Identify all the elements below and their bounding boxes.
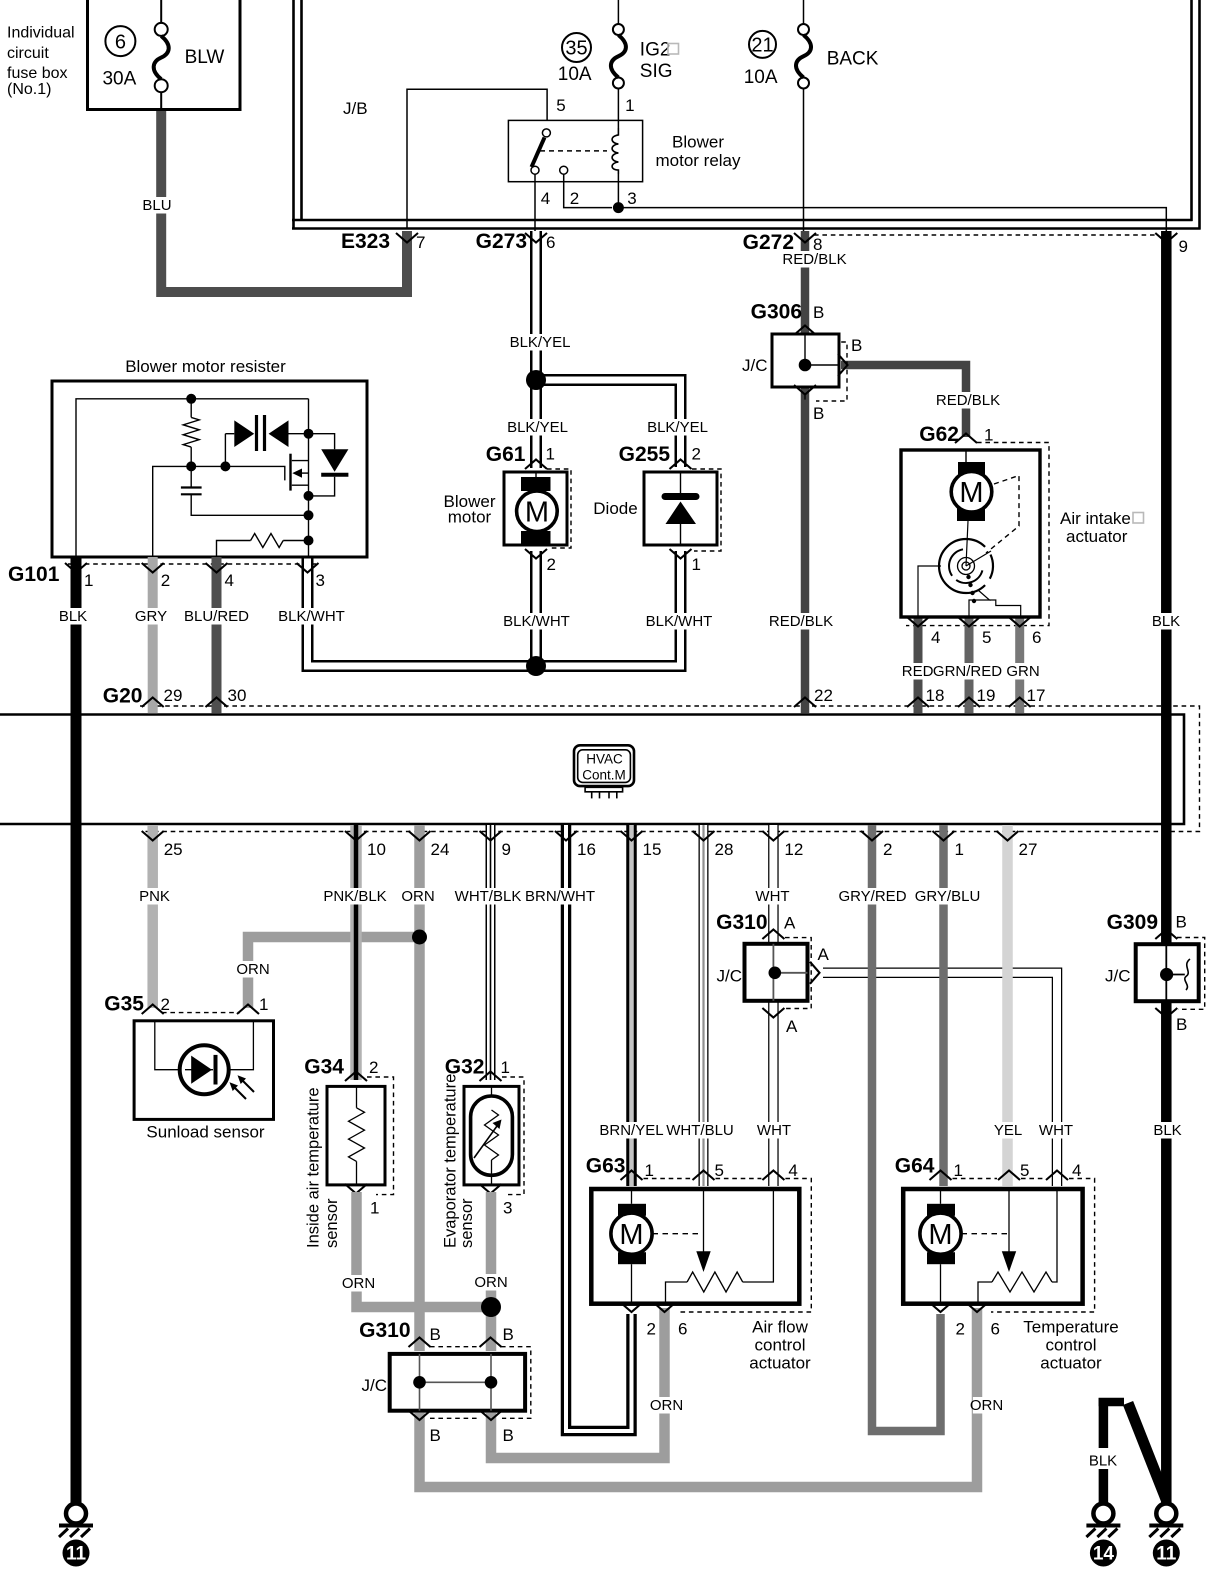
ground 11 right <box>1149 1504 1183 1567</box>
wire BLU from fuse box to E323 <box>161 111 407 292</box>
connector G35 pins 2,1 <box>104 993 268 1016</box>
junction BLK/YEL <box>526 370 546 390</box>
wire GRN/RED G62 pin 5 <box>965 617 974 713</box>
wire GRY resistor pin2 to G20 pin29 <box>148 557 158 713</box>
svg-text:sensor: sensor <box>323 1198 341 1248</box>
junction relay pin3 <box>613 202 624 213</box>
svg-text:actuator: actuator <box>1040 1354 1102 1373</box>
wire colour labels row2 <box>139 888 980 905</box>
svg-text:2: 2 <box>570 189 579 208</box>
svg-text:HVAC: HVAC <box>586 752 623 767</box>
svg-text:11: 11 <box>1156 1544 1177 1565</box>
label G64 <box>1023 1318 1118 1373</box>
wire ORN G32 pin3 to G310 <box>486 1192 497 1351</box>
svg-text:Cont.M: Cont.M <box>582 768 626 783</box>
wire WHT pin12 to G310 to G63 pin4 <box>768 825 779 946</box>
svg-text:GRN/RED: GRN/RED <box>933 663 1002 680</box>
internal capacitor C1 <box>190 466 192 487</box>
connector G101 dashed line <box>68 563 318 565</box>
HVAC control module outline <box>0 706 1200 832</box>
label G63 <box>749 1318 811 1373</box>
svg-text:M: M <box>928 1219 952 1251</box>
Air flow|control|actuator G63 <box>591 1189 799 1304</box>
svg-text:6: 6 <box>1032 628 1041 647</box>
connector G273 pin 6 <box>476 230 556 253</box>
svg-text:BLK/WHT: BLK/WHT <box>646 613 713 630</box>
svg-text:G35: G35 <box>104 993 144 1016</box>
svg-text:BLW: BLW <box>185 47 225 68</box>
gate rail <box>153 466 285 557</box>
sunload sensor G35 <box>134 1021 273 1142</box>
svg-text:G34: G34 <box>304 1056 344 1079</box>
wire BLK branch to ground 14 <box>1085 1398 1166 1504</box>
svg-text:1: 1 <box>259 995 268 1014</box>
svg-text:PNK/BLK: PNK/BLK <box>323 888 386 905</box>
connector HVAC row pins 25,10,24,9,16,15,28,12,2,1,27 <box>142 831 1038 859</box>
ground 11 left <box>59 1504 93 1567</box>
svg-text:27: 27 <box>1019 840 1038 859</box>
connector G62 pins 4,5,6 <box>902 617 1042 680</box>
connector G272 pin 8 <box>743 231 1157 254</box>
svg-text:1: 1 <box>692 555 701 574</box>
svg-text:J/C: J/C <box>362 1376 388 1395</box>
svg-text:(No.1): (No.1) <box>7 81 51 98</box>
svg-text:Temperature: Temperature <box>1023 1318 1118 1337</box>
internal MOSFET Q1 <box>289 454 291 491</box>
connector G64 pins 1,5,4 <box>895 1155 1095 1313</box>
svg-text:B: B <box>503 1325 514 1344</box>
svg-text:5: 5 <box>982 628 991 647</box>
svg-text:18: 18 <box>926 686 945 705</box>
svg-text:1: 1 <box>955 840 964 859</box>
svg-text:6: 6 <box>546 233 555 252</box>
wire WHT branch G310 to G64 pin4 <box>823 973 1057 1186</box>
svg-text:G255: G255 <box>619 443 671 466</box>
wire BLK/WHT blower motor and diode to resistor pin 3 <box>530 551 542 666</box>
svg-text:BLU: BLU <box>142 197 171 214</box>
svg-text:7: 7 <box>416 233 425 252</box>
svg-text:J/C: J/C <box>742 356 768 375</box>
svg-text:M: M <box>959 477 983 509</box>
HVAC Cont.M icon <box>574 745 634 798</box>
wire relay pin5 to E323 <box>407 89 547 228</box>
svg-text:GRN: GRN <box>1006 663 1039 680</box>
svg-text:6: 6 <box>991 1320 1000 1339</box>
connector G61 pins 1,2 <box>486 443 571 574</box>
connector G20 row pins <box>103 685 1046 708</box>
svg-text:A: A <box>786 1017 798 1036</box>
svg-text:G306: G306 <box>751 301 802 324</box>
svg-text:J/C: J/C <box>1105 967 1131 986</box>
individual circuit fuse box No.1 <box>7 0 242 111</box>
blower motor G61 <box>444 472 567 545</box>
connector G63 pins 1,5,4 <box>586 1155 812 1313</box>
wire WHT/BLK pin9 to G32 pin1 <box>486 825 496 1080</box>
svg-text:WHT: WHT <box>757 1122 791 1139</box>
ground 14 <box>1086 1504 1120 1567</box>
svg-text:ORN: ORN <box>401 888 434 905</box>
svg-text:J/B: J/B <box>343 99 368 118</box>
actuator drum <box>958 558 975 575</box>
svg-text:8: 8 <box>813 235 822 254</box>
svg-text:1: 1 <box>954 1161 963 1180</box>
svg-text:25: 25 <box>164 840 183 859</box>
svg-text:G101: G101 <box>8 563 60 586</box>
wire RED/BLK G272 to G306 to G20 pin 22 <box>801 231 810 336</box>
wire ORN pin24 to G310 <box>414 825 425 1351</box>
svg-text:G61: G61 <box>486 443 526 466</box>
svg-text:RED: RED <box>902 663 934 680</box>
svg-text:10A: 10A <box>744 67 778 88</box>
wire GRY/RED pin2 to G64 pin2 <box>872 825 941 1431</box>
junction connector G310 (J/C) pin A <box>716 911 829 1036</box>
wire RED G62 pin 4 <box>914 617 923 713</box>
svg-text:M: M <box>619 1219 643 1251</box>
svg-text:35: 35 <box>565 38 587 60</box>
svg-text:B: B <box>813 303 824 322</box>
connector G34 pin 2 <box>304 1056 393 1195</box>
svg-text:BLK/YEL: BLK/YEL <box>510 334 571 351</box>
wire BLU/RED resistor pin4 to G20 pin30 <box>212 557 222 713</box>
svg-text:Blower: Blower <box>672 133 724 152</box>
svg-text:GRY/BLU: GRY/BLU <box>915 888 981 905</box>
wire fuse21 to G272 <box>803 0 805 24</box>
svg-text:Individual: Individual <box>7 25 75 42</box>
svg-text:G64: G64 <box>895 1155 935 1178</box>
relay coil <box>612 128 618 174</box>
wire GRY/BLU pin1 to G64 pin1 <box>939 825 948 1186</box>
svg-text:G62: G62 <box>919 423 959 446</box>
internal resistor R2 <box>251 534 284 548</box>
svg-text:G309: G309 <box>1107 911 1158 934</box>
air intake actuator G62 <box>901 450 1040 617</box>
junction block J/B box <box>292 0 1201 230</box>
wire fuse35 to relay pin1 <box>617 0 619 24</box>
svg-text:21: 21 <box>751 34 773 56</box>
svg-text:IG2: IG2 <box>640 39 671 60</box>
svg-text:3: 3 <box>503 1199 512 1218</box>
junction connector G310 (J/C) pins B,B <box>359 1319 531 1445</box>
internal TVS diode pair <box>224 434 226 467</box>
svg-text:ORN: ORN <box>650 1397 683 1414</box>
svg-text:G20: G20 <box>103 685 143 708</box>
svg-text:4: 4 <box>541 189 550 208</box>
svg-text:Inside air temperature: Inside air temperature <box>305 1088 323 1249</box>
wire RED/BLK G306 branch to G62 <box>841 365 966 437</box>
svg-text:WHT/BLK: WHT/BLK <box>455 888 522 905</box>
wire ORN G310 to G64 pin6 <box>420 1308 978 1487</box>
svg-text:Blower motor resister: Blower motor resister <box>125 357 286 376</box>
wire relay pin4 to G273 <box>534 174 536 235</box>
svg-text:5: 5 <box>556 96 565 115</box>
svg-text:5: 5 <box>715 1161 724 1180</box>
svg-text:BLK: BLK <box>1153 1122 1181 1139</box>
svg-text:ORN: ORN <box>474 1274 507 1291</box>
svg-text:fuse box: fuse box <box>7 65 67 82</box>
svg-text:11: 11 <box>66 1544 87 1565</box>
svg-text:J/C: J/C <box>717 967 743 986</box>
fuse 35 10A IG2 SIG <box>558 24 679 89</box>
svg-text:30A: 30A <box>102 69 136 90</box>
svg-text:BLK: BLK <box>1152 613 1180 630</box>
junction ORN <box>412 930 427 945</box>
svg-text:B: B <box>1176 1015 1187 1034</box>
svg-text:G272: G272 <box>743 231 794 254</box>
wire relay pin2 <box>564 174 612 207</box>
svg-text:16: 16 <box>577 840 596 859</box>
internal resistor R1 <box>183 417 199 447</box>
svg-text:motor: motor <box>448 508 492 527</box>
svg-text:Air flow: Air flow <box>752 1318 808 1337</box>
svg-text:G310: G310 <box>359 1319 410 1342</box>
svg-text:4: 4 <box>788 1161 797 1180</box>
svg-text:WHT: WHT <box>1039 1122 1073 1139</box>
wire BLK resistor pin1 to ground 11 <box>71 557 82 1504</box>
connector G272 pin 9 <box>1155 233 1188 256</box>
svg-text:ORN: ORN <box>970 1397 1003 1414</box>
svg-text:2: 2 <box>369 1058 378 1077</box>
svg-text:circuit: circuit <box>7 45 49 62</box>
svg-text:control: control <box>754 1336 805 1355</box>
svg-text:14: 14 <box>1093 1544 1115 1565</box>
svg-text:GRY/RED: GRY/RED <box>838 888 906 905</box>
svg-text:B: B <box>1176 913 1187 932</box>
svg-text:sensor: sensor <box>458 1198 476 1248</box>
svg-text:RED/BLK: RED/BLK <box>936 392 1000 409</box>
svg-text:1: 1 <box>370 1199 379 1218</box>
svg-text:1: 1 <box>501 1058 510 1077</box>
svg-text:B: B <box>503 1426 514 1445</box>
svg-text:30: 30 <box>228 686 247 705</box>
inside air temperature sensor G34 <box>305 1086 386 1248</box>
connector G32 pin 1 <box>445 1056 524 1195</box>
light arrows <box>232 1085 246 1099</box>
svg-text:WHT: WHT <box>755 888 789 905</box>
wire ORN G310 to G63 pin6 <box>491 1308 665 1458</box>
svg-text:1: 1 <box>625 96 634 115</box>
junction ORN G32 <box>481 1297 501 1317</box>
svg-text:2: 2 <box>161 995 170 1014</box>
svg-text:BRN/YEL: BRN/YEL <box>599 1122 663 1139</box>
svg-text:BLU/RED: BLU/RED <box>184 608 249 625</box>
svg-text:4: 4 <box>931 628 940 647</box>
svg-text:3: 3 <box>627 189 636 208</box>
svg-text:YEL: YEL <box>994 1122 1022 1139</box>
junction block connector G306 <box>742 301 862 424</box>
fuse 6 30A BLW <box>102 0 224 110</box>
svg-text:G310: G310 <box>716 911 767 934</box>
svg-text:ORN: ORN <box>236 961 269 978</box>
svg-text:GRY: GRY <box>135 608 167 625</box>
svg-text:B: B <box>430 1426 441 1445</box>
svg-text:12: 12 <box>784 840 803 859</box>
svg-text:PNK: PNK <box>139 888 170 905</box>
junction BLK/WHT <box>526 656 546 676</box>
svg-text:A: A <box>818 945 830 964</box>
connector G101 pins 1,2,4,3 <box>8 559 345 625</box>
svg-text:M: M <box>525 497 549 529</box>
svg-text:9: 9 <box>502 840 511 859</box>
svg-text:17: 17 <box>1027 686 1046 705</box>
connector G62 pin 1 <box>906 423 1049 626</box>
connector E323 pin 7 <box>341 230 426 253</box>
svg-text:motor relay: motor relay <box>655 151 741 170</box>
wire ORN G34 pin1 to junction <box>357 1192 486 1307</box>
evaporator temperature sensor G32 <box>442 1074 519 1248</box>
svg-text:22: 22 <box>814 686 833 705</box>
internal flyback diode D1 <box>308 399 310 557</box>
svg-text:Air intake: Air intake <box>1060 509 1131 528</box>
svg-text:2: 2 <box>956 1320 965 1339</box>
svg-text:6: 6 <box>678 1320 687 1339</box>
svg-text:B: B <box>851 336 862 355</box>
wire ORN branch to G35 pin1 <box>248 937 420 1008</box>
svg-text:control: control <box>1045 1336 1096 1355</box>
svg-text:BRN/WHT: BRN/WHT <box>525 888 595 905</box>
wire BLK pin 9 to G309 to ground 11 <box>1161 231 1172 946</box>
label RED/BLK above pin 22 <box>771 613 831 630</box>
svg-text:2: 2 <box>883 840 892 859</box>
svg-text:Evaporator temperature: Evaporator temperature <box>442 1074 460 1248</box>
junction connector G309 (J/C) pin B <box>1105 911 1205 1034</box>
svg-text:2: 2 <box>692 445 701 464</box>
svg-text:G63: G63 <box>586 1155 626 1178</box>
svg-text:10A: 10A <box>558 64 592 85</box>
svg-text:9: 9 <box>1179 237 1188 256</box>
internal junctions <box>186 394 196 404</box>
svg-text:SIG: SIG <box>640 61 673 82</box>
wire YEL pin27 to G64 pin5 <box>1002 825 1013 1186</box>
svg-text:Diode: Diode <box>593 499 637 518</box>
svg-text:10: 10 <box>367 840 386 859</box>
svg-text:2: 2 <box>547 555 556 574</box>
svg-text:actuator: actuator <box>1066 527 1128 546</box>
svg-text:24: 24 <box>431 840 450 859</box>
svg-text:BLK/YEL: BLK/YEL <box>507 419 568 436</box>
fuse 21 10A BACK <box>744 24 879 89</box>
svg-text:BACK: BACK <box>827 49 879 70</box>
svg-text:Sunload sensor: Sunload sensor <box>146 1123 264 1142</box>
wire PNK pin25 to G35 pin2 <box>147 825 158 1008</box>
svg-text:4: 4 <box>225 571 234 590</box>
svg-text:BLK: BLK <box>59 608 87 625</box>
svg-text:ORN: ORN <box>342 1275 375 1292</box>
blower motor resistor box <box>52 357 367 557</box>
svg-text:1: 1 <box>546 445 555 464</box>
svg-text:5: 5 <box>1020 1161 1029 1180</box>
wire relay pin3 to pin9 <box>618 174 1166 235</box>
svg-text:WHT/BLU: WHT/BLU <box>666 1122 734 1139</box>
wire WHT/BLU pin28 to G63 pin5 <box>699 825 709 1186</box>
svg-text:actuator: actuator <box>749 1354 811 1373</box>
wire PNK/BLK pin10 to G34 pin2 <box>350 825 362 1080</box>
connector G64 pins 2,6 <box>930 1303 1000 1339</box>
svg-text:29: 29 <box>164 686 183 705</box>
connector G32 pin 3 <box>480 1184 513 1218</box>
wire BLK/YEL G273 to G61 and G255 <box>530 231 542 468</box>
svg-text:B: B <box>813 404 824 423</box>
svg-text:19: 19 <box>977 686 996 705</box>
connector G63 pins 2,6 <box>621 1303 688 1339</box>
connector G255 pins 2,1 <box>619 443 721 574</box>
svg-text:BLK: BLK <box>1089 1453 1117 1470</box>
svg-text:28: 28 <box>715 840 734 859</box>
Temperature|control|actuator G64 <box>903 1189 1082 1304</box>
svg-text:2: 2 <box>647 1320 656 1339</box>
svg-text:3: 3 <box>316 571 325 590</box>
svg-text:BLK/YEL: BLK/YEL <box>647 419 708 436</box>
connector G34 pin 1 <box>345 1184 379 1218</box>
svg-text:4: 4 <box>1072 1161 1081 1180</box>
svg-text:1: 1 <box>84 571 93 590</box>
svg-text:BLK/WHT: BLK/WHT <box>278 608 345 625</box>
svg-text:A: A <box>784 914 796 933</box>
wire BRN/YEL pin15 to G63 pin1 <box>626 825 637 1186</box>
svg-text:BLK/WHT: BLK/WHT <box>503 613 570 630</box>
wire GRN G62 pin 6 <box>1015 617 1024 713</box>
svg-text:G273: G273 <box>476 230 527 253</box>
svg-text:2: 2 <box>161 571 170 590</box>
diode G255 <box>593 472 717 545</box>
blower motor relay <box>508 96 741 208</box>
svg-text:6: 6 <box>115 32 126 54</box>
wire BRN/WHT pin16 to G63 pin2 <box>566 825 632 1431</box>
svg-text:15: 15 <box>643 840 662 859</box>
svg-text:B: B <box>430 1325 441 1344</box>
svg-text:E323: E323 <box>341 230 390 253</box>
resistor internals <box>76 394 348 557</box>
svg-text:1: 1 <box>984 426 993 445</box>
svg-text:1: 1 <box>645 1161 654 1180</box>
svg-text:RED/BLK: RED/BLK <box>769 613 833 630</box>
